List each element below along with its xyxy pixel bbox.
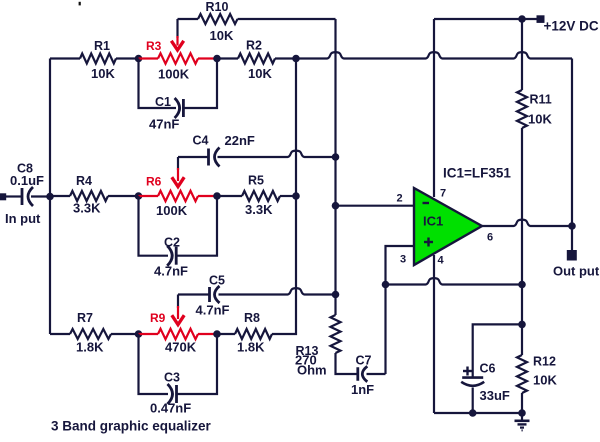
wire C2 right rise bbox=[177, 196, 217, 256]
value 100K R3 bbox=[158, 67, 190, 82]
label C7 bbox=[356, 354, 372, 368]
label R8 bbox=[244, 311, 260, 325]
svg-text:R11: R11 bbox=[530, 93, 552, 107]
wire pin4 vertical bbox=[433, 255, 435, 413]
capacitor C6 plus sign bbox=[463, 367, 472, 376]
label R3 bbox=[146, 39, 162, 53]
capacitor C5 bbox=[210, 286, 220, 303]
svg-text:R5: R5 bbox=[248, 174, 264, 188]
label +12V DC bbox=[544, 19, 599, 34]
value 270 bbox=[295, 353, 317, 368]
node input bus bbox=[46, 193, 54, 201]
svg-text:3.3K: 3.3K bbox=[245, 202, 273, 217]
op-amp plus sign bbox=[424, 238, 433, 247]
node band2 right bbox=[213, 192, 221, 200]
svg-text:0.1uF: 0.1uF bbox=[10, 173, 44, 188]
resistor R1 bbox=[80, 54, 116, 64]
svg-text:C5: C5 bbox=[209, 274, 225, 288]
wire output stub bbox=[571, 226, 573, 250]
wire supply to R11 bbox=[521, 19, 523, 90]
wiper arrow R9 head bbox=[172, 315, 184, 324]
wiper arrow R3 shaft bbox=[176, 19, 178, 46]
label C6 bbox=[480, 362, 496, 376]
resistor R12 bbox=[517, 355, 527, 393]
terminal output square bbox=[567, 250, 577, 261]
wiper arrow R6 shaft bbox=[177, 157, 179, 181]
svg-text:10K: 10K bbox=[528, 112, 552, 127]
wire C4 right with hop bbox=[218, 151, 336, 157]
node C5 to bus bbox=[332, 291, 340, 299]
wire band3 left bbox=[50, 333, 70, 335]
svg-text:R9: R9 bbox=[150, 311, 166, 325]
svg-text:IC1: IC1 bbox=[423, 214, 443, 229]
pin number 4 bbox=[438, 255, 445, 267]
svg-text:R7: R7 bbox=[77, 311, 93, 325]
node pin3 bias tap bbox=[382, 281, 390, 289]
label In put bbox=[5, 211, 41, 226]
node band1 right bbox=[213, 55, 221, 63]
wire pot R9 right lead bbox=[198, 333, 217, 335]
svg-text:1.8K: 1.8K bbox=[76, 340, 104, 355]
terminal input square bbox=[0, 193, 6, 200]
node ground junction bbox=[518, 409, 526, 417]
svg-text:R1: R1 bbox=[94, 39, 110, 53]
capacitor C4 bbox=[209, 148, 220, 167]
capacitor C7 bbox=[358, 366, 368, 382]
resistor R13 bbox=[331, 315, 341, 353]
wire pot R3 right lead bbox=[198, 57, 217, 59]
label C8 bbox=[17, 162, 33, 176]
svg-text:R8: R8 bbox=[244, 311, 260, 325]
wire ground rail bbox=[434, 412, 522, 414]
wire R5 to bus bbox=[280, 195, 296, 197]
svg-text:3 Band graphic equalizer: 3 Band graphic equalizer bbox=[51, 419, 212, 434]
wire band2 left bbox=[50, 195, 70, 197]
wire node to R2 bbox=[217, 57, 238, 59]
value 10K R1 bbox=[91, 66, 115, 81]
node band3 left bbox=[135, 330, 143, 338]
wire R10 left + wiper corner bbox=[238, 18, 336, 20]
value 47nF bbox=[149, 117, 179, 132]
svg-text:4: 4 bbox=[438, 255, 445, 267]
svg-text:10K: 10K bbox=[210, 28, 234, 43]
svg-text:R3: R3 bbox=[146, 39, 162, 53]
capacitor C8 bbox=[22, 187, 33, 206]
wire divider vertical bbox=[521, 128, 523, 355]
ground symbol bbox=[515, 413, 530, 430]
capacitor C3 bbox=[168, 384, 177, 404]
value 4.7nF C5 bbox=[196, 303, 230, 318]
node band2 left bbox=[135, 192, 143, 200]
capacitor C2 bbox=[167, 246, 176, 266]
pin number 2 bbox=[397, 193, 403, 205]
capacitor C6 bbox=[461, 378, 484, 386]
svg-text:470K: 470K bbox=[165, 340, 197, 355]
wire +12V rail bbox=[434, 18, 537, 20]
wire C3 right rise bbox=[178, 334, 218, 394]
label C1 bbox=[155, 95, 171, 109]
potentiometer R6 bbox=[158, 191, 198, 201]
node band1 feedback tap bbox=[292, 55, 300, 63]
wire C5 left bbox=[178, 293, 210, 295]
caption bbox=[51, 419, 212, 434]
value 3.3K R5 bbox=[245, 202, 273, 217]
svg-text:C4: C4 bbox=[193, 134, 209, 148]
value 4.7nF C2 bbox=[154, 264, 188, 279]
svg-text:C6: C6 bbox=[480, 362, 496, 376]
wire input to C8 bbox=[6, 195, 22, 197]
value 0.47nF bbox=[150, 401, 191, 416]
svg-text:10K: 10K bbox=[91, 66, 115, 81]
label C4 bbox=[193, 134, 209, 148]
wire pin3 bbox=[386, 246, 415, 374]
resistor R8 bbox=[235, 329, 272, 339]
svg-text:1.8K: 1.8K bbox=[237, 340, 265, 355]
svg-text:Ohm: Ohm bbox=[297, 363, 327, 378]
wire bias line with hop bbox=[386, 278, 523, 284]
resistor R10 bbox=[198, 14, 238, 24]
value 33uF bbox=[480, 388, 510, 403]
value 10K R10 bbox=[210, 28, 234, 43]
wire pin2 bbox=[336, 205, 415, 207]
label C3 bbox=[164, 371, 180, 385]
svg-text:C3: C3 bbox=[164, 371, 180, 385]
wire C1 left drop bbox=[139, 59, 177, 109]
value 100K R6 bbox=[156, 203, 188, 218]
wire C1 right rise bbox=[185, 59, 218, 109]
value 3.3K R4 bbox=[73, 201, 101, 216]
svg-text:3.3K: 3.3K bbox=[73, 201, 101, 216]
node band3 right bbox=[213, 330, 221, 338]
svg-text:10K: 10K bbox=[533, 373, 557, 388]
value 10K R11 bbox=[528, 112, 552, 127]
wiper arrow R6 head bbox=[172, 177, 184, 186]
svg-text:47nF: 47nF bbox=[149, 117, 179, 132]
value 1.8K R7 bbox=[76, 340, 104, 355]
node C6 ground bbox=[469, 409, 477, 417]
wire C3 left drop bbox=[139, 334, 169, 394]
label IC1 inside bbox=[423, 214, 443, 229]
pin number 3 bbox=[400, 254, 406, 266]
wire C6 bottom bbox=[472, 388, 474, 414]
wire node to R8 bbox=[217, 333, 235, 335]
svg-text:0.47nF: 0.47nF bbox=[150, 401, 191, 416]
node band1 left bbox=[135, 55, 143, 63]
wire inverting bus vertical bbox=[334, 19, 336, 315]
svg-text:4.7nF: 4.7nF bbox=[154, 264, 188, 279]
svg-text:In put: In put bbox=[5, 211, 41, 226]
svg-text:+12V DC: +12V DC bbox=[544, 19, 599, 34]
wire C7 to pin3 drop bbox=[367, 373, 386, 375]
svg-text:2: 2 bbox=[397, 193, 403, 205]
label C2 bbox=[164, 236, 180, 250]
resistor R2 bbox=[238, 54, 275, 64]
value Ohm bbox=[297, 363, 327, 378]
wire C4 left bbox=[178, 156, 209, 158]
wire node to R5 bbox=[217, 195, 242, 197]
node C6 tap bbox=[518, 321, 526, 329]
op-amp IC1 bbox=[414, 188, 482, 265]
svg-text:10K: 10K bbox=[248, 66, 272, 81]
potentiometer R3 bbox=[158, 53, 198, 63]
value 470K bbox=[165, 340, 197, 355]
svg-text:R4: R4 bbox=[76, 174, 92, 188]
label R7 bbox=[77, 311, 93, 325]
wire pin6 output with hop bbox=[482, 220, 572, 226]
label R12 bbox=[533, 355, 556, 369]
stray tick mark bbox=[79, 2, 81, 6]
label R9 bbox=[150, 311, 166, 325]
value 22nF bbox=[225, 133, 255, 148]
label Out put bbox=[553, 264, 600, 279]
node +12V junction bbox=[518, 15, 526, 23]
svg-text:6: 6 bbox=[487, 232, 493, 244]
svg-text:4.7nF: 4.7nF bbox=[196, 303, 230, 318]
resistor R11 bbox=[517, 90, 527, 128]
svg-text:IC1=LF351: IC1=LF351 bbox=[443, 166, 511, 181]
wire band1 to feedback with hops bbox=[275, 52, 572, 58]
svg-text:R10: R10 bbox=[206, 0, 229, 14]
node bias at divider bbox=[518, 281, 526, 289]
wire R7 to node bbox=[111, 333, 139, 335]
potentiometer R9 bbox=[158, 329, 198, 339]
pin number 7 bbox=[440, 188, 446, 200]
wire C8 to bus bbox=[31, 195, 50, 197]
label R11 bbox=[530, 93, 552, 107]
node band2 bus bbox=[292, 192, 300, 200]
wire C6 top branch bbox=[473, 324, 522, 377]
svg-text:C2: C2 bbox=[164, 236, 180, 250]
svg-text:R12: R12 bbox=[533, 355, 556, 369]
wiper arrow R3 head bbox=[171, 41, 183, 50]
wire pot R6 left lead bbox=[139, 195, 159, 197]
value 1nF bbox=[351, 382, 374, 397]
value 10K R2 bbox=[248, 66, 272, 81]
label C5 bbox=[209, 274, 225, 288]
label R10 bbox=[206, 0, 229, 14]
label R13 bbox=[296, 344, 319, 358]
resistor R7 bbox=[70, 329, 111, 339]
svg-text:100K: 100K bbox=[158, 67, 190, 82]
label R5 bbox=[248, 174, 264, 188]
label IC1=LF351 bbox=[443, 166, 511, 181]
svg-text:22nF: 22nF bbox=[225, 133, 255, 148]
terminal +12V square bbox=[537, 15, 545, 23]
node C4 to bus bbox=[332, 153, 340, 161]
svg-text:R2: R2 bbox=[246, 39, 262, 53]
svg-text:3: 3 bbox=[400, 254, 406, 266]
pin number 6 bbox=[487, 232, 493, 244]
wire band1 left bbox=[50, 57, 80, 59]
wire C2 left drop bbox=[139, 196, 169, 256]
wire input bus vertical bbox=[49, 59, 51, 335]
svg-text:7: 7 bbox=[440, 188, 446, 200]
value 0.1uF bbox=[10, 173, 44, 188]
value 1.8K R8 bbox=[237, 340, 265, 355]
capacitor C1 bbox=[175, 98, 184, 118]
value 10K R12 bbox=[533, 373, 557, 388]
label R2 bbox=[246, 39, 262, 53]
wire R13 to C7 bbox=[336, 353, 358, 374]
wire feedback vertical bbox=[571, 59, 573, 227]
svg-text:33uF: 33uF bbox=[480, 388, 510, 403]
svg-text:C7: C7 bbox=[356, 354, 372, 368]
op-amp minus sign bbox=[423, 202, 430, 204]
resistor R5 bbox=[242, 191, 280, 201]
wire R12 to ground bbox=[521, 393, 523, 413]
wire R4 to node bbox=[108, 195, 139, 197]
resistor R4 bbox=[70, 191, 108, 201]
wiper arrow R9 shaft bbox=[177, 295, 179, 320]
wire R10 lead-in bbox=[178, 18, 199, 20]
wire C5 right with hop bbox=[219, 288, 336, 294]
wire R8 to bus corner bbox=[272, 59, 296, 335]
svg-text:R6: R6 bbox=[146, 175, 162, 189]
svg-text:C1: C1 bbox=[155, 95, 171, 109]
svg-text:Out put: Out put bbox=[553, 264, 600, 279]
wire pin7 vertical bbox=[433, 19, 435, 197]
wire pot R3 left lead bbox=[139, 57, 159, 59]
label R1 bbox=[94, 39, 110, 53]
label R6 bbox=[146, 175, 162, 189]
label R4 bbox=[76, 174, 92, 188]
wire pot R6 right lead bbox=[198, 195, 217, 197]
node output junction bbox=[568, 222, 576, 230]
wire pot R9 left lead bbox=[139, 333, 159, 335]
node pin2 tap bbox=[332, 202, 340, 210]
wire R1 to node bbox=[116, 57, 139, 59]
svg-text:100K: 100K bbox=[156, 203, 188, 218]
svg-text:1nF: 1nF bbox=[351, 382, 374, 397]
